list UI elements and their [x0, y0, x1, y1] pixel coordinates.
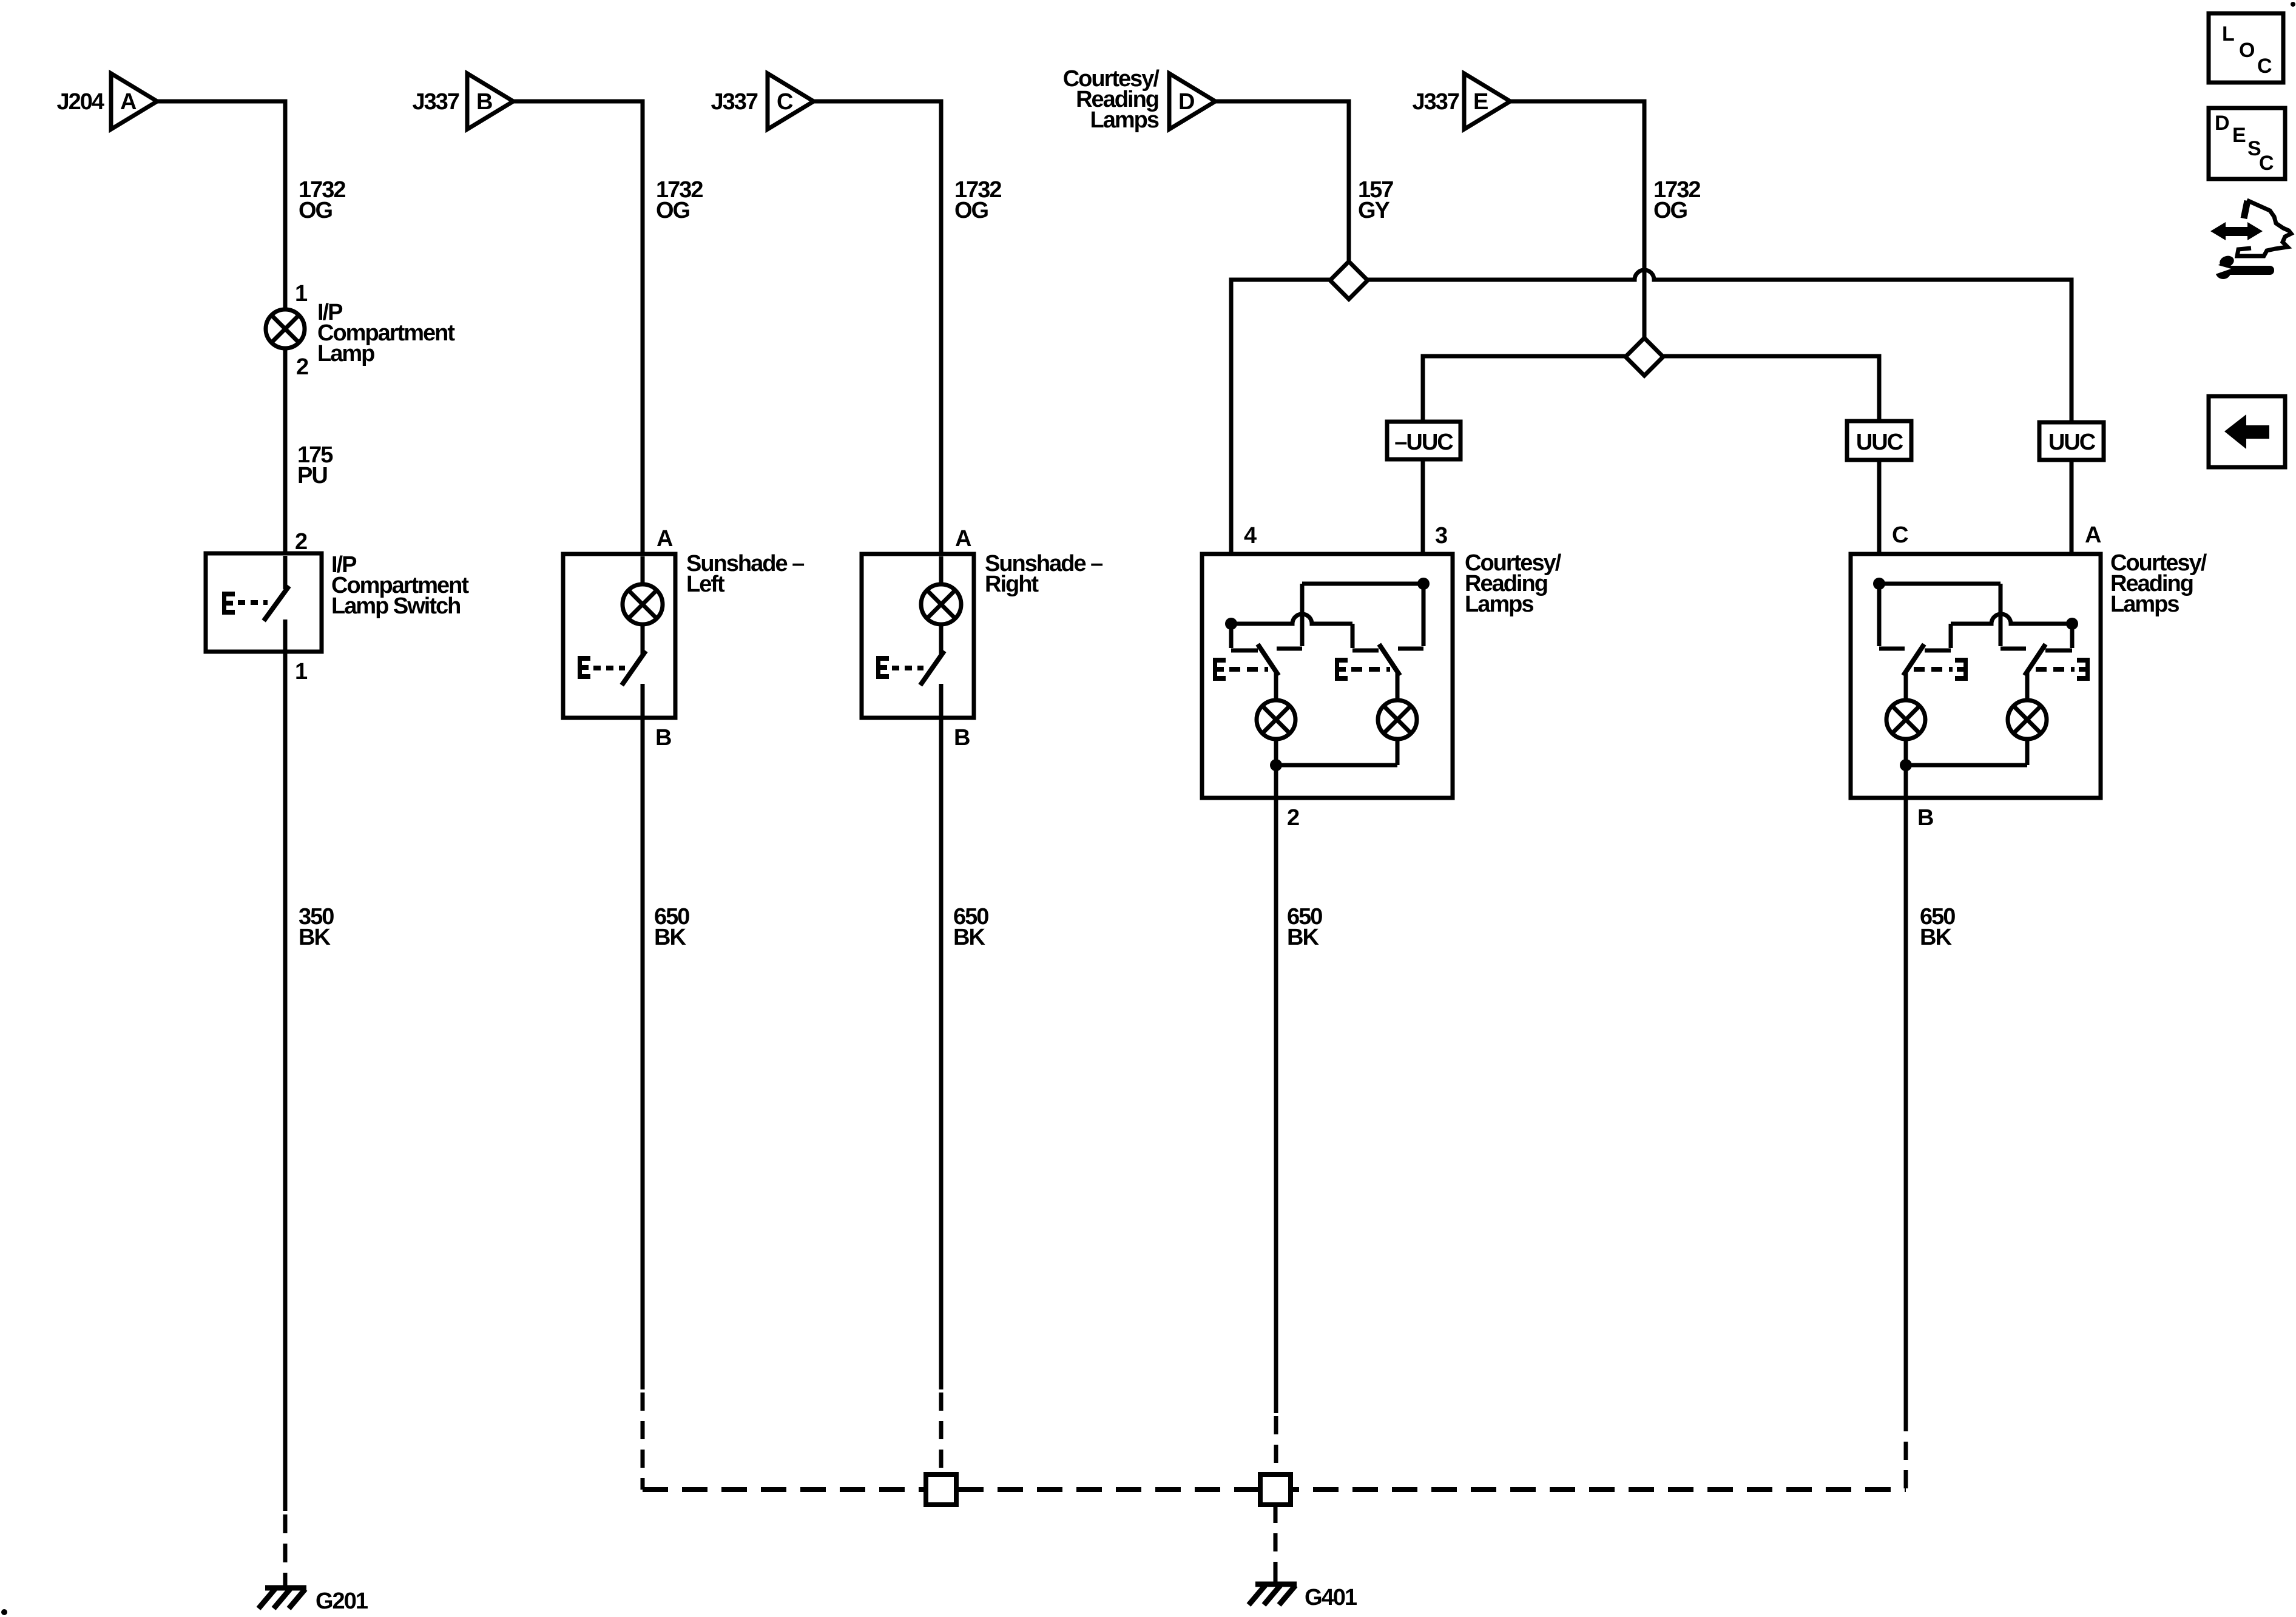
- svg-text:C: C: [1892, 522, 1908, 548]
- svg-text:2: 2: [296, 354, 308, 380]
- svg-text:OG: OG: [656, 198, 690, 223]
- svg-text:OG: OG: [299, 198, 333, 223]
- svg-text:E: E: [1473, 89, 1488, 115]
- svg-text:C: C: [2259, 152, 2274, 175]
- svg-text:J337: J337: [1412, 89, 1459, 115]
- svg-text:J204: J204: [56, 89, 104, 115]
- svg-text:E: E: [2232, 124, 2246, 147]
- svg-text:D: D: [1178, 89, 1194, 115]
- svg-text:BK: BK: [299, 925, 331, 950]
- svg-text:J337: J337: [711, 89, 757, 115]
- svg-text:A: A: [657, 526, 673, 552]
- svg-text:2: 2: [1287, 805, 1299, 831]
- svg-text:Left: Left: [686, 572, 725, 597]
- svg-text:C: C: [2257, 55, 2272, 78]
- svg-text:–UUC: –UUC: [1394, 430, 1453, 455]
- svg-text:Right: Right: [985, 572, 1039, 597]
- svg-text:L: L: [2222, 22, 2235, 46]
- svg-text:4: 4: [1244, 523, 1257, 549]
- svg-text:B: B: [476, 89, 492, 115]
- svg-text:BK: BK: [1287, 925, 1319, 950]
- svg-text:BK: BK: [654, 925, 686, 950]
- svg-text:Lamps: Lamps: [2110, 592, 2179, 617]
- svg-text:BK: BK: [1920, 925, 1952, 950]
- svg-text:G401: G401: [1305, 1585, 1357, 1610]
- svg-text:B: B: [954, 725, 970, 751]
- svg-text:2: 2: [295, 529, 307, 555]
- svg-text:GY: GY: [1358, 198, 1390, 223]
- svg-text:OG: OG: [1653, 198, 1687, 223]
- svg-text:3: 3: [1435, 523, 1447, 549]
- svg-text:A: A: [2085, 522, 2101, 548]
- svg-text:B: B: [655, 725, 671, 751]
- svg-text:Lamp Switch: Lamp Switch: [331, 593, 460, 619]
- svg-text:Lamp: Lamp: [317, 341, 374, 366]
- svg-text:A: A: [120, 89, 137, 115]
- svg-text:1: 1: [295, 281, 308, 306]
- svg-text:C: C: [777, 89, 793, 115]
- svg-text:UUC: UUC: [2048, 430, 2096, 455]
- svg-text:BK: BK: [953, 925, 985, 950]
- svg-text:PU: PU: [297, 463, 327, 488]
- svg-text:G201: G201: [316, 1588, 368, 1614]
- svg-text:1: 1: [295, 659, 308, 684]
- svg-text:OG: OG: [954, 198, 988, 223]
- svg-text:O: O: [2239, 39, 2255, 62]
- svg-text:Lamps: Lamps: [1090, 107, 1159, 133]
- svg-text:D: D: [2215, 112, 2230, 135]
- svg-text:B: B: [1917, 805, 1933, 831]
- svg-text:Lamps: Lamps: [1465, 592, 1533, 617]
- svg-text:J337: J337: [412, 89, 459, 115]
- svg-text:UUC: UUC: [1856, 430, 1903, 455]
- svg-text:A: A: [955, 526, 971, 552]
